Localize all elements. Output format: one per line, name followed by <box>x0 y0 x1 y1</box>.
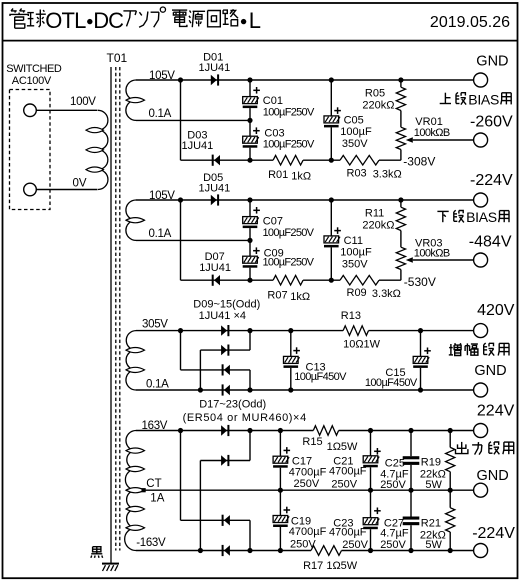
svg-text:C11: C11 <box>344 235 363 247</box>
svg-text:R09: R09 <box>347 287 367 299</box>
svg-text:L: L <box>249 8 261 33</box>
svg-text:0.1A: 0.1A <box>146 378 169 390</box>
svg-text:R17 1Ω5W: R17 1Ω5W <box>303 560 358 572</box>
svg-text:-224V: -224V <box>470 172 513 189</box>
svg-text:4700µF: 4700µF <box>289 466 327 478</box>
svg-text:250V: 250V <box>342 539 368 551</box>
svg-text:4700µF: 4700µF <box>329 466 367 478</box>
svg-text:-224V: -224V <box>472 525 515 542</box>
svg-text:350V: 350V <box>342 258 368 270</box>
svg-text:250V: 250V <box>331 479 357 491</box>
svg-text:1JU41: 1JU41 <box>182 140 214 152</box>
svg-text:100kΩB: 100kΩB <box>414 127 450 139</box>
svg-text:0.1A: 0.1A <box>149 108 172 120</box>
svg-text:BIAS: BIAS <box>468 91 499 107</box>
svg-text:D09~15(Odd): D09~15(Odd) <box>193 298 260 310</box>
svg-text:220kΩ: 220kΩ <box>362 100 394 112</box>
svg-text:1JU41: 1JU41 <box>199 182 231 194</box>
svg-text:100µF: 100µF <box>340 126 372 138</box>
svg-text:1kΩ: 1kΩ <box>290 291 310 303</box>
svg-text:C05: C05 <box>344 114 364 126</box>
svg-text:4700µF: 4700µF <box>289 526 327 538</box>
svg-text:1A: 1A <box>150 493 164 505</box>
svg-text:-530V: -530V <box>404 275 436 289</box>
svg-text:100µF: 100µF <box>340 246 372 258</box>
svg-text:100µF450V: 100µF450V <box>294 371 347 383</box>
svg-text:R05: R05 <box>365 87 385 99</box>
svg-text:GND: GND <box>474 363 506 379</box>
svg-text:C01: C01 <box>263 95 283 107</box>
svg-text:420V: 420V <box>477 302 515 319</box>
svg-text:250V: 250V <box>290 539 316 551</box>
svg-text:1JU41 ×4: 1JU41 ×4 <box>199 310 246 322</box>
svg-text:GND: GND <box>476 53 508 69</box>
svg-text:3.3kΩ: 3.3kΩ <box>372 288 401 300</box>
svg-text:(ER504 or MUR460)×4: (ER504 or MUR460)×4 <box>183 412 307 424</box>
svg-text:-308V: -308V <box>403 155 435 169</box>
svg-text:CT: CT <box>146 478 161 490</box>
svg-text:R01: R01 <box>268 169 288 181</box>
svg-text:R03: R03 <box>347 168 367 180</box>
svg-text:100µF250V: 100µF250V <box>263 227 315 239</box>
svg-text:224V: 224V <box>477 403 515 420</box>
svg-text:2019.05.26: 2019.05.26 <box>430 14 510 31</box>
svg-text:250V: 250V <box>380 539 406 551</box>
svg-text:1JU41: 1JU41 <box>199 262 231 274</box>
svg-text:3.3kΩ: 3.3kΩ <box>373 169 402 181</box>
svg-text:R19: R19 <box>421 457 441 469</box>
svg-text:250V: 250V <box>380 479 406 491</box>
svg-text:-163V: -163V <box>136 537 166 549</box>
svg-text:C07: C07 <box>263 216 283 228</box>
svg-text:10Ω1W: 10Ω1W <box>343 339 381 351</box>
svg-text:4.7µF: 4.7µF <box>380 527 409 539</box>
svg-text:R21: R21 <box>421 518 441 530</box>
svg-text:R11: R11 <box>365 207 384 219</box>
svg-text:1JU41: 1JU41 <box>199 62 231 74</box>
svg-text:100µF250V: 100µF250V <box>263 107 315 119</box>
svg-text:5W: 5W <box>425 479 442 491</box>
svg-text:-484V: -484V <box>469 234 512 251</box>
svg-text:-260V: -260V <box>470 113 513 130</box>
svg-text:305V: 305V <box>142 319 168 331</box>
svg-text:0.1A: 0.1A <box>149 228 172 240</box>
svg-text:100µF450V: 100µF450V <box>365 377 418 389</box>
svg-text:5W: 5W <box>425 539 442 551</box>
svg-text:DC: DC <box>93 8 124 33</box>
svg-text:220kΩ: 220kΩ <box>362 220 394 232</box>
svg-text:0V: 0V <box>73 177 87 189</box>
svg-text:GND: GND <box>477 468 509 484</box>
svg-text:R13: R13 <box>341 310 361 322</box>
svg-text:250V: 250V <box>294 478 320 490</box>
svg-text:R07: R07 <box>267 290 287 302</box>
svg-text:100µF250V: 100µF250V <box>263 257 315 269</box>
svg-text:350V: 350V <box>342 138 368 150</box>
svg-text:100kΩB: 100kΩB <box>414 247 450 259</box>
svg-text:OTL: OTL <box>45 8 86 33</box>
svg-text:1Ω5W: 1Ω5W <box>327 441 358 453</box>
svg-text:BIAS: BIAS <box>466 209 497 225</box>
svg-text:T01: T01 <box>107 51 128 65</box>
svg-text:4700µF: 4700µF <box>329 527 367 539</box>
svg-text:D17~23(Odd): D17~23(Odd) <box>199 399 266 411</box>
svg-text:R15: R15 <box>302 436 322 448</box>
svg-text:100V: 100V <box>70 96 96 108</box>
svg-text:SWITCHED: SWITCHED <box>6 63 62 75</box>
svg-text:1kΩ: 1kΩ <box>291 171 311 183</box>
svg-text:100µF250V: 100µF250V <box>263 139 315 151</box>
svg-text:AC100V: AC100V <box>12 75 52 87</box>
